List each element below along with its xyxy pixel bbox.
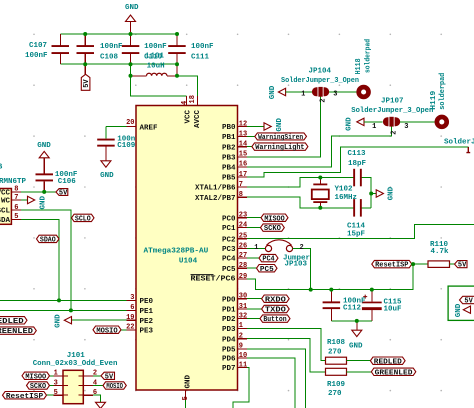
svg-text:27: 27 xyxy=(239,252,247,260)
svg-text:GND: GND xyxy=(37,142,51,150)
svg-text:MOSIO: MOSIO xyxy=(96,327,118,335)
svg-text:AREF: AREF xyxy=(140,124,159,132)
svg-text:PD7: PD7 xyxy=(222,365,236,373)
svg-text:PD0: PD0 xyxy=(222,296,236,304)
svg-text:22: 22 xyxy=(126,324,134,332)
svg-text:PB1: PB1 xyxy=(222,134,236,142)
svg-text:SCKO: SCKO xyxy=(264,225,282,233)
svg-text:2: 2 xyxy=(319,98,327,102)
svg-text:17: 17 xyxy=(239,171,247,179)
svg-text:5V: 5V xyxy=(458,262,467,270)
svg-text:C108: C108 xyxy=(100,54,119,62)
svg-text:19: 19 xyxy=(126,314,134,322)
svg-text:5: 5 xyxy=(14,213,18,221)
svg-text:PD3: PD3 xyxy=(222,326,236,334)
svg-text:R109: R109 xyxy=(327,381,346,389)
svg-text:SCKO: SCKO xyxy=(30,383,47,391)
svg-text:23: 23 xyxy=(239,212,247,220)
svg-text:6: 6 xyxy=(14,204,18,212)
svg-text:100nF: 100nF xyxy=(144,43,167,51)
svg-text:PE2: PE2 xyxy=(140,318,154,326)
svg-text:5V: 5V xyxy=(83,79,91,88)
svg-text:GND: GND xyxy=(388,186,396,200)
svg-text:Y102: Y102 xyxy=(335,186,354,194)
svg-text:PB2: PB2 xyxy=(222,144,236,152)
svg-text:ResetISP: ResetISP xyxy=(6,393,44,401)
svg-text:SDA: SDA xyxy=(0,217,10,225)
svg-text:3: 3 xyxy=(130,294,134,302)
svg-text:PB3: PB3 xyxy=(222,154,236,162)
svg-text:4: 4 xyxy=(93,379,97,387)
svg-text:PC4: PC4 xyxy=(222,256,236,264)
svg-text:PE1: PE1 xyxy=(140,308,154,316)
svg-text:SolderJum: SolderJum xyxy=(444,139,474,147)
svg-text:PE3: PE3 xyxy=(140,327,154,335)
svg-text:GREENLED: GREENLED xyxy=(375,369,413,377)
svg-text:5: 5 xyxy=(54,389,58,397)
svg-text:25: 25 xyxy=(239,233,247,241)
svg-text:2: 2 xyxy=(239,333,243,341)
svg-text:U104: U104 xyxy=(179,258,198,266)
svg-text:PD1: PD1 xyxy=(222,307,236,315)
svg-text:29: 29 xyxy=(239,273,247,281)
svg-text:2: 2 xyxy=(391,131,399,135)
svg-text:Button: Button xyxy=(263,316,287,324)
svg-text:11: 11 xyxy=(239,361,247,369)
svg-text:3: 3 xyxy=(333,91,337,99)
svg-text:8: 8 xyxy=(239,191,243,199)
svg-text:5V: 5V xyxy=(464,298,473,306)
svg-text:REDLED: REDLED xyxy=(374,358,403,366)
svg-text:15: 15 xyxy=(239,151,247,159)
svg-text:SolderJumper_3_Open: SolderJumper_3_Open xyxy=(281,77,359,85)
svg-text:14: 14 xyxy=(239,141,247,149)
svg-text:PC3: PC3 xyxy=(222,246,236,254)
svg-text:5: 5 xyxy=(182,396,190,400)
svg-text:18: 18 xyxy=(189,95,197,103)
svg-text:15pF: 15pF xyxy=(347,230,366,238)
svg-text:10uH: 10uH xyxy=(147,63,165,71)
svg-text:PB5: PB5 xyxy=(222,175,236,183)
svg-text:C112: C112 xyxy=(343,305,362,313)
svg-text:PC5: PC5 xyxy=(222,266,236,274)
svg-text:1: 1 xyxy=(372,123,376,131)
svg-text:7: 7 xyxy=(14,194,18,202)
svg-text:10uF: 10uF xyxy=(384,306,403,314)
svg-text:REDLED: REDLED xyxy=(0,318,24,326)
svg-text:12: 12 xyxy=(239,120,247,128)
svg-text:RESET/PC6: RESET/PC6 xyxy=(191,275,237,283)
svg-text:PD5: PD5 xyxy=(222,347,236,355)
svg-text:1: 1 xyxy=(301,91,305,99)
svg-text:GND: GND xyxy=(100,172,114,180)
svg-text:GND: GND xyxy=(269,85,277,99)
svg-text:WC: WC xyxy=(1,198,11,206)
svg-text:100nF: 100nF xyxy=(25,52,48,60)
svg-text:MISOO: MISOO xyxy=(264,215,285,223)
svg-text:solderpad: solderpad xyxy=(439,73,447,110)
svg-text:JP107: JP107 xyxy=(381,98,404,106)
svg-text:SDAO: SDAO xyxy=(40,237,56,245)
svg-text:100nF: 100nF xyxy=(191,43,214,51)
svg-text:WarningLight: WarningLight xyxy=(255,144,304,152)
svg-text:PD6: PD6 xyxy=(222,356,236,364)
svg-text:24: 24 xyxy=(239,221,247,229)
svg-text:C109: C109 xyxy=(117,142,136,150)
svg-text:4.7k: 4.7k xyxy=(431,248,450,256)
svg-text:4: 4 xyxy=(181,101,189,105)
svg-text:ATmega328PB-AU: ATmega328PB-AU xyxy=(144,248,209,256)
svg-text:PC2: PC2 xyxy=(222,236,236,244)
svg-text:SolderJumper_3_Open: SolderJumper_3_Open xyxy=(351,107,433,115)
svg-text:XTAL2/PB7: XTAL2/PB7 xyxy=(195,195,236,203)
svg-text:C106: C106 xyxy=(58,178,77,186)
svg-text:6: 6 xyxy=(93,389,97,397)
svg-text:GND: GND xyxy=(39,195,47,209)
svg-text:PE0: PE0 xyxy=(140,298,154,306)
svg-text:RXDO: RXDO xyxy=(265,296,286,304)
svg-text:C111: C111 xyxy=(191,54,210,62)
svg-text:32: 32 xyxy=(239,312,247,320)
svg-text:1: 1 xyxy=(239,322,243,330)
svg-text:270: 270 xyxy=(328,348,342,356)
svg-text:GND: GND xyxy=(276,118,284,132)
svg-text:2: 2 xyxy=(300,244,304,252)
svg-text:28: 28 xyxy=(239,262,247,270)
svg-text:PC4: PC4 xyxy=(262,256,275,264)
svg-text:7: 7 xyxy=(239,181,243,189)
svg-text:RMN6TP: RMN6TP xyxy=(0,178,27,186)
svg-text:solderpad: solderpad xyxy=(365,39,373,73)
svg-text:R108: R108 xyxy=(327,339,346,347)
svg-text:18pF: 18pF xyxy=(348,160,367,168)
svg-text:SCLO: SCLO xyxy=(75,216,91,224)
svg-text:PC0: PC0 xyxy=(222,215,236,223)
svg-text:MOSIO: MOSIO xyxy=(106,383,123,391)
svg-text:C113: C113 xyxy=(348,150,367,158)
svg-text:31: 31 xyxy=(239,303,247,311)
svg-text:GND: GND xyxy=(184,374,192,388)
svg-text:Conn_02x03_Odd_Even: Conn_02x03_Odd_Even xyxy=(33,360,118,368)
svg-text:ResetISP: ResetISP xyxy=(375,262,409,270)
svg-text:J101: J101 xyxy=(67,352,86,360)
svg-text:16: 16 xyxy=(239,161,247,169)
svg-text:PD2: PD2 xyxy=(222,316,236,324)
svg-text:16MHz: 16MHz xyxy=(335,194,358,202)
svg-text:3: 3 xyxy=(54,379,58,387)
svg-text:GND: GND xyxy=(55,314,63,328)
svg-text:8: 8 xyxy=(14,186,18,194)
svg-text:5V: 5V xyxy=(59,190,68,198)
svg-text:PC5: PC5 xyxy=(260,266,274,274)
svg-text:20: 20 xyxy=(126,119,134,127)
svg-text:PB4: PB4 xyxy=(222,165,236,173)
svg-text:C107: C107 xyxy=(29,42,47,50)
svg-text:9: 9 xyxy=(239,343,243,351)
svg-text:MISOO: MISOO xyxy=(25,373,46,381)
svg-text:6: 6 xyxy=(130,304,134,312)
svg-text:TXDO: TXDO xyxy=(265,307,286,315)
svg-text:GND: GND xyxy=(455,303,463,317)
svg-text:JP104: JP104 xyxy=(309,68,332,76)
svg-text:C114: C114 xyxy=(347,222,366,230)
svg-text:AVCC: AVCC xyxy=(194,109,202,128)
svg-text:SCL: SCL xyxy=(0,208,10,216)
svg-text:H118: H118 xyxy=(355,58,363,74)
svg-text:PB0: PB0 xyxy=(222,124,236,132)
svg-text:GND: GND xyxy=(349,343,363,351)
svg-text:2: 2 xyxy=(93,370,97,378)
svg-text:VCC: VCC xyxy=(0,190,10,198)
svg-text:26: 26 xyxy=(239,242,247,250)
svg-text:13: 13 xyxy=(239,130,247,138)
svg-text:JP103: JP103 xyxy=(285,260,308,268)
svg-text:GREENLED: GREENLED xyxy=(0,328,33,336)
svg-text:VCC: VCC xyxy=(184,109,192,123)
svg-text:PC1: PC1 xyxy=(222,225,236,233)
svg-text:100nF: 100nF xyxy=(100,43,123,51)
svg-text:3: 3 xyxy=(404,123,408,131)
svg-text:5V: 5V xyxy=(105,373,114,381)
svg-text:XTAL1/PB6: XTAL1/PB6 xyxy=(195,185,236,193)
svg-text:GND: GND xyxy=(346,117,354,131)
svg-text:30: 30 xyxy=(239,293,247,301)
svg-text:WarningSiren: WarningSiren xyxy=(258,134,303,142)
svg-text:270: 270 xyxy=(328,390,342,398)
svg-text:L101: L101 xyxy=(146,52,165,60)
svg-text:PD4: PD4 xyxy=(222,336,236,344)
svg-text:10: 10 xyxy=(239,352,247,360)
svg-text:1: 1 xyxy=(254,244,258,252)
svg-text:1: 1 xyxy=(54,370,58,378)
svg-text:H119: H119 xyxy=(430,90,438,110)
svg-text:GND: GND xyxy=(125,4,139,12)
